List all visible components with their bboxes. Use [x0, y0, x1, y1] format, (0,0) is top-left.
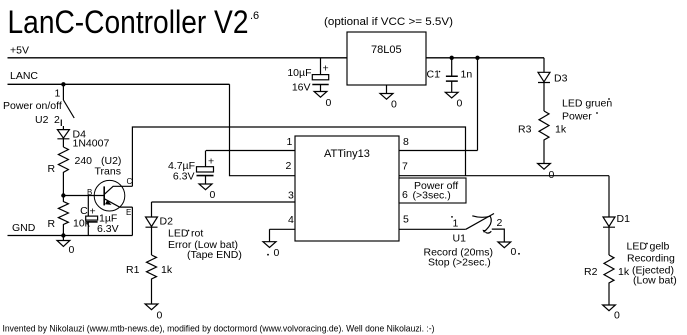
svg-text:(>3sec.): (>3sec.) [413, 190, 451, 202]
svg-text:1N4007: 1N4007 [73, 138, 110, 150]
diode D3 [538, 72, 550, 111]
svg-text:+5V: +5V [10, 45, 29, 57]
ground 0 R3 [538, 164, 551, 170]
node base junction [61, 193, 65, 197]
IC U3 ATTiny13 [295, 136, 399, 241]
svg-text:7: 7 [402, 161, 408, 173]
capacitor 10uF [320, 58, 322, 92]
svg-text:Trans: Trans [95, 166, 121, 178]
wire +5V to D3 [543, 58, 545, 73]
svg-text:10µF: 10µF [287, 67, 311, 79]
svg-text:(Tape END): (Tape END) [187, 249, 242, 261]
svg-text:gelb: gelb [650, 241, 670, 253]
svg-text:(optional if VCC >= 5.5V): (optional if VCC >= 5.5V) [324, 16, 453, 28]
diode D2 [146, 202, 158, 255]
svg-text:3: 3 [288, 190, 294, 202]
wire pin7 to D1 [608, 176, 610, 217]
capacitor C1 1n [451, 58, 453, 93]
ground 0 C1 [445, 92, 458, 98]
svg-text:(Low bat): (Low bat) [633, 275, 677, 287]
svg-text:LED gruen: LED gruen [562, 98, 612, 110]
svg-text:2: 2 [286, 160, 292, 172]
svg-text:240: 240 [75, 155, 93, 167]
svg-text:.6: .6 [250, 10, 259, 22]
resistor R2 [604, 255, 614, 305]
svg-text:D3: D3 [554, 73, 568, 85]
svg-text:1: 1 [55, 88, 61, 100]
node junction pin8 drop [475, 56, 479, 60]
svg-text:D2: D2 [160, 216, 174, 228]
svg-text:Invented by Nikolauzi (www.mtb: Invented by Nikolauzi (www.mtb-news.de),… [3, 324, 435, 335]
svg-text:6.3V: 6.3V [97, 223, 119, 235]
ground 0 R2 [603, 305, 616, 311]
ground 0 10uF [314, 92, 327, 98]
switch U1 [466, 214, 494, 230]
capacitor C 1uF [87, 196, 89, 236]
svg-text:4: 4 [288, 214, 294, 226]
svg-text:+: + [208, 156, 214, 168]
svg-text:E: E [126, 208, 131, 217]
svg-text:1k: 1k [555, 124, 567, 136]
svg-text:0: 0 [457, 98, 463, 110]
svg-text:0: 0 [614, 310, 620, 322]
ground 0 left [57, 236, 70, 247]
switch U2 power on/off [61, 84, 74, 126]
svg-text:Power: Power [562, 111, 592, 123]
svg-text:R: R [48, 218, 56, 230]
svg-text:1: 1 [287, 136, 293, 148]
node junction C1 [450, 56, 454, 60]
svg-text:0: 0 [157, 310, 163, 322]
ground 0 4.7uF [199, 184, 212, 190]
svg-text:6: 6 [402, 189, 408, 201]
resistor R1 [147, 255, 157, 304]
transistor Q1 Trans [94, 180, 125, 211]
resistor R3 [539, 111, 549, 164]
svg-text:1k: 1k [618, 266, 630, 278]
svg-text:GND: GND [12, 222, 36, 234]
svg-text:C: C [127, 177, 133, 186]
svg-text:8: 8 [403, 136, 409, 148]
svg-text:LED: LED [627, 241, 648, 253]
svg-text:0: 0 [511, 246, 517, 258]
svg-text:LanC-Controller V2: LanC-Controller V2 [8, 4, 249, 40]
wire base [63, 195, 104, 197]
svg-text:LANC: LANC [10, 70, 38, 82]
pin 6 label box Power off [399, 178, 466, 203]
svg-text:U2: U2 [35, 114, 49, 126]
svg-text:0: 0 [274, 247, 280, 259]
svg-text:0: 0 [69, 244, 75, 256]
wire collector to pin7 [132, 127, 465, 186]
svg-text:D1: D1 [617, 213, 631, 225]
svg-text:0: 0 [326, 97, 332, 109]
svg-text:0: 0 [391, 99, 397, 111]
svg-text:LED: LED [168, 228, 189, 240]
svg-text:+: + [323, 63, 329, 75]
svg-text:Recording: Recording [627, 253, 675, 265]
ground 0 U1 [498, 242, 511, 248]
regulator U4 78L05 [347, 32, 426, 85]
svg-text:2: 2 [54, 114, 60, 126]
ground 0 pin4 [263, 229, 276, 247]
diode D1 [603, 217, 615, 255]
svg-text:Power on/off: Power on/off [3, 100, 62, 112]
ground 0 R1 [145, 304, 158, 310]
svg-text:78L05: 78L05 [371, 44, 402, 56]
svg-text:1n: 1n [461, 69, 473, 81]
svg-text:+: + [90, 206, 96, 218]
svg-text:1k: 1k [161, 264, 173, 276]
diode D4 [57, 126, 69, 147]
svg-text:0: 0 [549, 169, 555, 181]
svg-text:6.3V: 6.3V [173, 171, 195, 183]
svg-text:R3: R3 [518, 124, 532, 136]
svg-text:0: 0 [210, 189, 216, 201]
svg-text:1: 1 [453, 218, 459, 230]
node GND junction [61, 233, 65, 237]
svg-text:rot: rot [191, 228, 203, 240]
node LANC tap junction [61, 82, 65, 86]
svg-text:R: R [48, 163, 56, 175]
svg-text:R2: R2 [584, 266, 598, 278]
wire emitter to GND [131, 207, 133, 235]
svg-text:2: 2 [497, 217, 503, 229]
resistor R 240 [58, 147, 68, 196]
svg-text:U1: U1 [453, 233, 467, 245]
capacitor C 4.7uF [205, 151, 207, 185]
svg-text:R1: R1 [126, 264, 140, 276]
svg-text:16V: 16V [292, 82, 311, 94]
svg-text:Stop (>2sec.): Stop (>2sec.) [428, 257, 491, 269]
ground 0 78L05 [380, 85, 393, 99]
svg-text:C: C [80, 205, 88, 217]
svg-text:5: 5 [403, 214, 409, 226]
wire +5V to pin8 [477, 58, 479, 151]
resistor R 10k [58, 196, 68, 236]
svg-text:C1: C1 [427, 69, 441, 81]
svg-text:ATTiny13: ATTiny13 [324, 148, 370, 160]
wire LANC to pin2 [230, 84, 296, 175]
